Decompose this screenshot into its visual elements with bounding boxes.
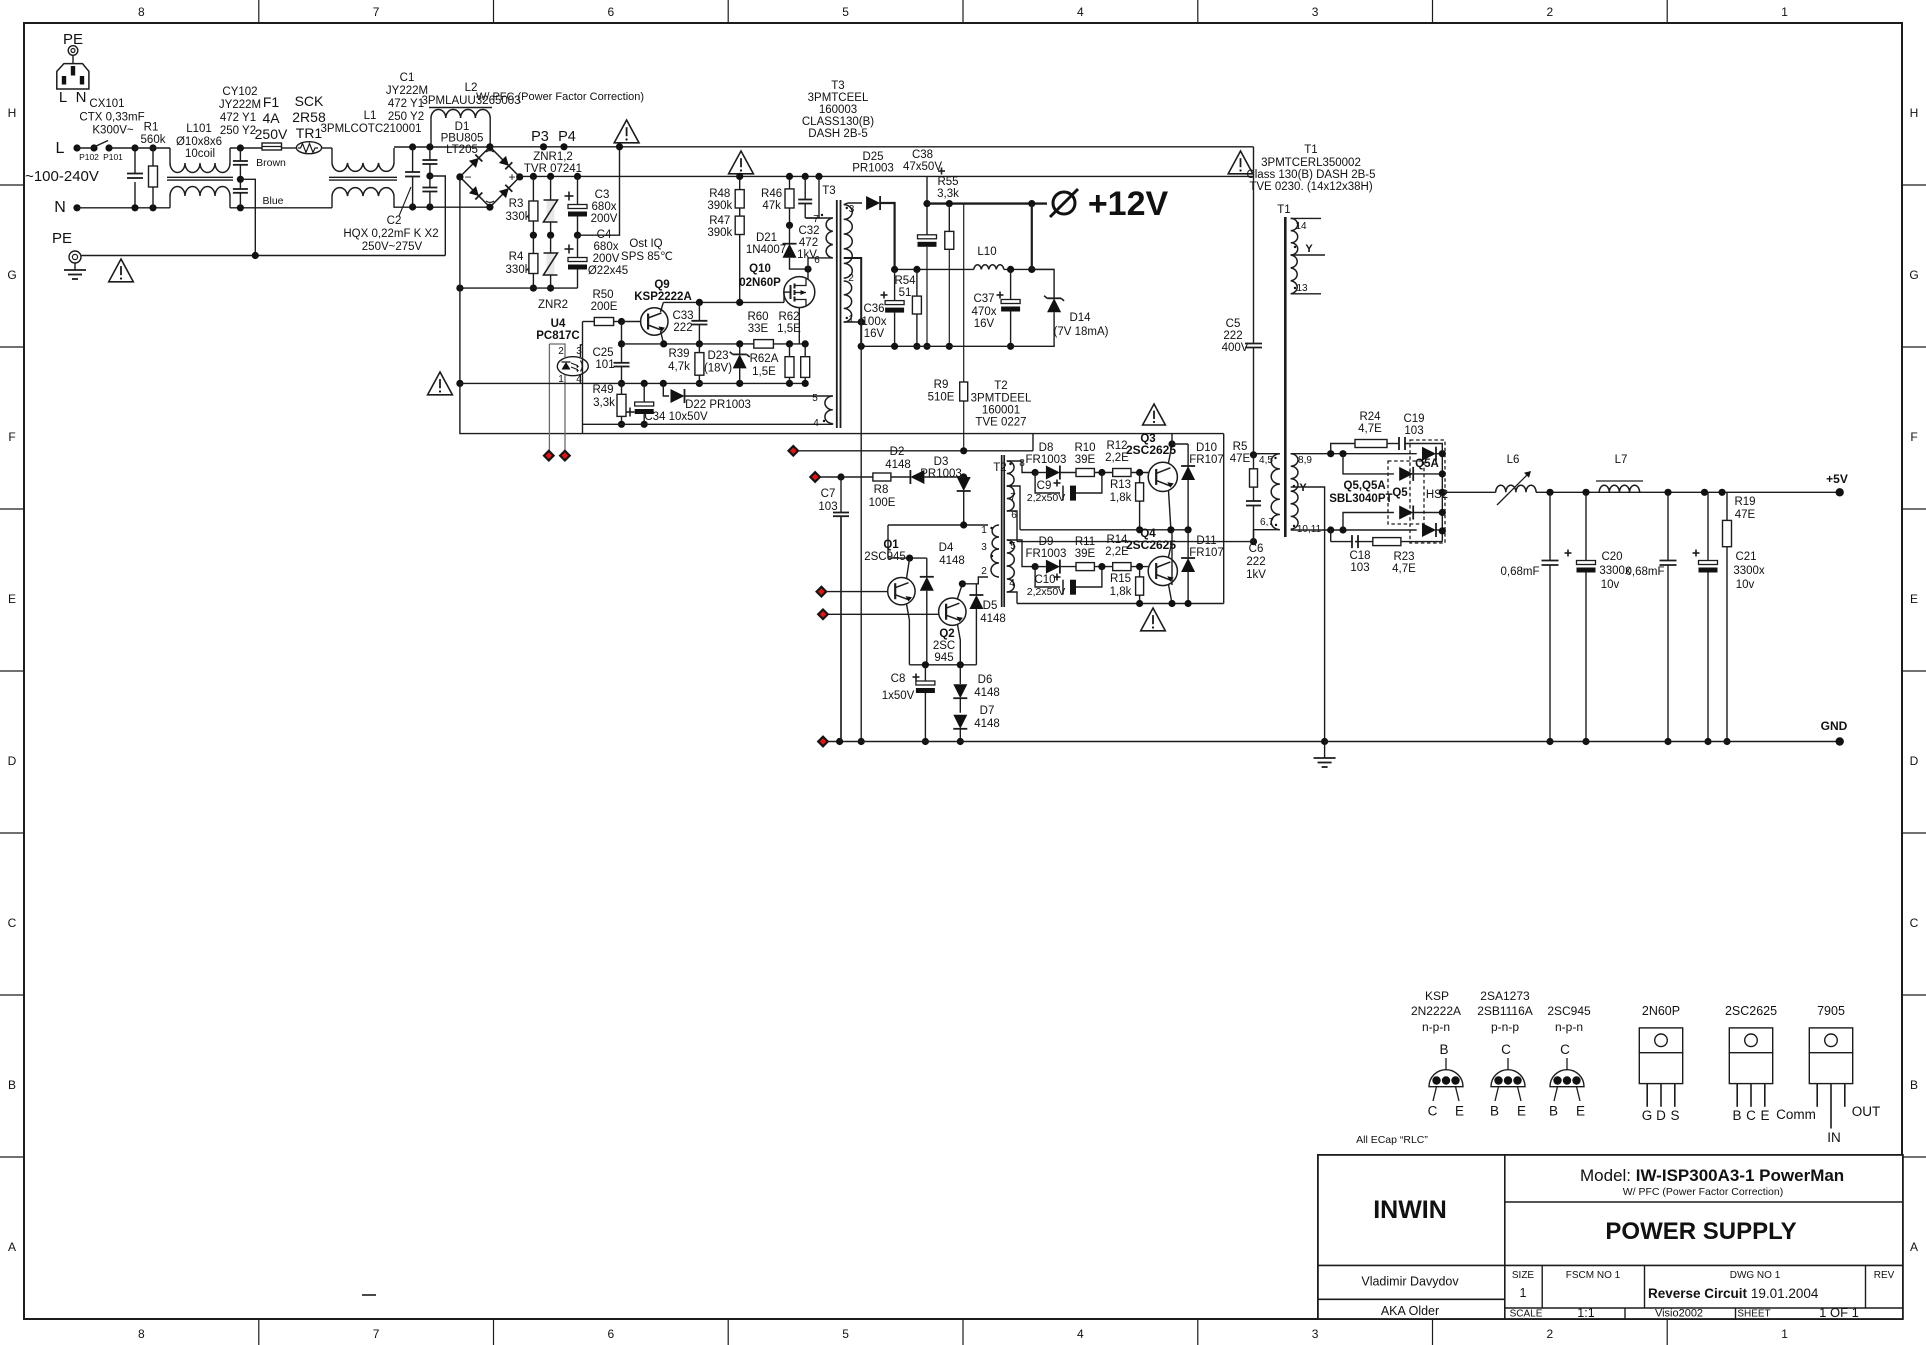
wire T3 pin2 stub xyxy=(844,258,862,346)
svg-text:R3: R3 xyxy=(509,198,524,210)
resistor R60 xyxy=(754,340,774,349)
transistor Q2 xyxy=(939,598,966,625)
svg-text:P3: P3 xyxy=(531,129,549,145)
svg-text:Q10: Q10 xyxy=(749,263,771,275)
T2 pin8 stub xyxy=(1007,461,1035,473)
svg-text:D3: D3 xyxy=(934,456,949,468)
svg-text:L1: L1 xyxy=(364,110,377,122)
T1 secondary winding 8,9-Y-10,11 xyxy=(1291,454,1298,479)
svg-text:8: 8 xyxy=(138,1327,145,1341)
diode D8 xyxy=(1032,469,1039,476)
svg-text:7: 7 xyxy=(373,1327,380,1341)
snubber C18 R23 branch xyxy=(1330,530,1332,542)
svg-text:D25: D25 xyxy=(862,151,883,163)
capacitor C1 Y-pair xyxy=(429,147,431,160)
wire bridge minus down xyxy=(459,177,461,288)
wire rail to plus12 node xyxy=(926,176,928,234)
svg-text:R50: R50 xyxy=(592,289,613,301)
svg-text:E: E xyxy=(1910,592,1918,606)
svg-text:R4: R4 xyxy=(509,251,524,263)
svg-text:C2: C2 xyxy=(387,215,402,227)
diode D4 xyxy=(926,558,928,577)
label +12V with no-connect symbol xyxy=(1053,192,1075,214)
svg-text:SPS 85℃: SPS 85℃ xyxy=(621,251,673,263)
package TO-92 B-C-E xyxy=(1429,1070,1463,1087)
svg-text:DWG NO 1: DWG NO 1 xyxy=(1730,1270,1781,1281)
svg-text:OUT: OUT xyxy=(1852,1104,1881,1119)
svg-text:R10: R10 xyxy=(1074,442,1095,454)
svg-text:B: B xyxy=(8,1078,16,1092)
wire N row 230-330 xyxy=(230,207,332,209)
diode D9 xyxy=(1032,563,1039,570)
capacitor C37 xyxy=(1010,269,1012,299)
svg-text:C: C xyxy=(1560,1042,1570,1057)
svg-text:R8: R8 xyxy=(874,484,889,496)
wire D7 to gnd bus xyxy=(959,729,961,742)
svg-text:680x: 680x xyxy=(594,241,619,253)
schottky diode d2 xyxy=(1399,467,1413,481)
svg-text:1,5E: 1,5E xyxy=(777,323,801,335)
U4 pin2 wire down to red dot xyxy=(548,344,550,451)
zone column ticks xyxy=(258,0,260,23)
package TO-92 C-B-E xyxy=(1550,1070,1584,1087)
svg-text:Y: Y xyxy=(1299,482,1307,494)
svg-text:p-n-p: p-n-p xyxy=(1491,1020,1519,1034)
wire red line to cell xyxy=(798,450,1033,452)
connector red dot P6 xyxy=(810,472,820,482)
svg-text:3PMTDEEL: 3PMTDEEL xyxy=(971,393,1032,405)
svg-text:250V~275V: 250V~275V xyxy=(362,241,423,253)
svg-text:51: 51 xyxy=(899,287,912,299)
svg-text:16V: 16V xyxy=(864,328,885,340)
svg-text:CX101: CX101 xyxy=(89,98,124,110)
svg-text:4148: 4148 xyxy=(974,718,1000,730)
svg-text:C25: C25 xyxy=(592,347,613,359)
resistor R62 xyxy=(789,344,791,357)
row Q3 bottom xyxy=(1020,529,1188,531)
svg-text:C32: C32 xyxy=(798,225,819,237)
svg-text:HQX 0,22mF K X2: HQX 0,22mF K X2 xyxy=(343,228,438,240)
svg-text:INWIN: INWIN xyxy=(1373,1196,1447,1224)
wire mid vertical xyxy=(1171,530,1173,542)
svg-text:T3: T3 xyxy=(822,185,835,197)
plus12 line xyxy=(927,202,1047,204)
T3 left winding pins 7-6 xyxy=(806,217,833,219)
wire T3 pin3 to D25 xyxy=(844,203,862,205)
svg-text:10coil: 10coil xyxy=(185,148,215,160)
warning triangle near T1 xyxy=(1228,151,1253,174)
svg-text:472 Y1: 472 Y1 xyxy=(220,112,256,124)
svg-text:Comm: Comm xyxy=(1776,1107,1816,1122)
zener D14 xyxy=(1032,269,1054,298)
svg-text:CLASS130(B): CLASS130(B) xyxy=(802,116,874,128)
T2 pin5 stub xyxy=(1007,540,1035,567)
resistor R4 xyxy=(532,235,534,253)
Q10 gate wire xyxy=(784,291,791,293)
svg-text:4: 4 xyxy=(813,418,819,429)
svg-text:1: 1 xyxy=(1781,1327,1788,1341)
leader line C2 xyxy=(399,187,411,216)
capacitor C38 electrolytic xyxy=(918,235,937,239)
svg-text:100x: 100x xyxy=(862,316,887,328)
resistor R62A xyxy=(804,344,806,357)
svg-text:1: 1 xyxy=(1520,1286,1527,1300)
capacitor C36 xyxy=(894,269,896,300)
svg-text:IN: IN xyxy=(1827,1130,1841,1145)
svg-text:SCK: SCK xyxy=(295,93,324,109)
svg-text:n-p-n: n-p-n xyxy=(1555,1020,1583,1034)
svg-text:A: A xyxy=(8,1240,16,1254)
svg-text:(7V 18mA): (7V 18mA) xyxy=(1054,326,1109,338)
warning triangle near PE xyxy=(109,259,134,282)
svg-text:PBU805: PBU805 xyxy=(441,133,484,145)
svg-text:200V: 200V xyxy=(593,253,620,265)
svg-text:Blue: Blue xyxy=(262,195,283,207)
svg-text:10v: 10v xyxy=(1601,579,1620,591)
gnd rail right portion xyxy=(1325,741,1840,743)
PE terminal symbol xyxy=(68,46,78,56)
capacitor C20 xyxy=(1565,552,1572,554)
row B 12V return xyxy=(861,345,1010,347)
svg-text:P4: P4 xyxy=(558,129,576,145)
svg-text:REV: REV xyxy=(1874,1270,1895,1281)
svg-text:D2: D2 xyxy=(890,446,905,458)
svg-text:39E: 39E xyxy=(1075,548,1096,560)
Q10 drain wire xyxy=(807,269,809,279)
wire T2 pin2 link xyxy=(962,577,988,584)
svg-text:0,68mF: 0,68mF xyxy=(1501,566,1540,578)
diode D5 xyxy=(975,584,977,595)
inductor L7 xyxy=(1599,485,1639,492)
wire vertical x861 xyxy=(860,346,862,741)
svg-text:103: 103 xyxy=(1350,562,1369,574)
transformer T1 core xyxy=(1284,217,1287,537)
feed to diode d2 xyxy=(1343,454,1394,474)
svg-text:2SC2625: 2SC2625 xyxy=(1725,1004,1777,1018)
svg-text:R19: R19 xyxy=(1734,496,1755,508)
svg-text:FR1003: FR1003 xyxy=(1026,548,1067,560)
Q10 source wire xyxy=(798,308,800,344)
+5V terminal xyxy=(1836,488,1844,496)
T1 winding 14-Y-13 xyxy=(1291,218,1298,255)
svg-text:D: D xyxy=(1910,754,1919,768)
resistor R15 xyxy=(1139,567,1141,577)
T3 right winding pin2-1 xyxy=(844,281,852,322)
svg-text:2,2x50V: 2,2x50V xyxy=(1027,492,1066,504)
capacitor CY102 pair xyxy=(239,148,241,161)
svg-text:14: 14 xyxy=(1295,221,1307,232)
Q2 collector wire xyxy=(958,584,963,599)
svg-text:W/ PFC (Power Factor Correctio: W/ PFC (Power Factor Correction) xyxy=(476,91,644,103)
svg-text:LT205: LT205 xyxy=(446,144,478,156)
svg-text:E: E xyxy=(1517,1104,1526,1119)
svg-text:ZNR2: ZNR2 xyxy=(538,299,568,311)
wire rail to T3 pin7 branch xyxy=(818,176,820,218)
svg-text:47k: 47k xyxy=(762,200,781,212)
svg-text:4148: 4148 xyxy=(980,613,1006,625)
transistor Q9 xyxy=(622,321,649,323)
svg-text:R24: R24 xyxy=(1359,411,1381,423)
scale row line xyxy=(1505,1307,1903,1309)
wire Q4 collector vertical xyxy=(1171,556,1173,585)
dashed box Q5A xyxy=(1410,440,1445,543)
svg-text:L: L xyxy=(56,140,65,157)
svg-text:4,5: 4,5 xyxy=(1259,455,1273,466)
svg-text:1x50V: 1x50V xyxy=(882,690,915,702)
svg-text:5: 5 xyxy=(842,5,849,19)
mosfet Q10 xyxy=(784,277,815,308)
svg-text:4148: 4148 xyxy=(974,687,1000,699)
svg-text:R55: R55 xyxy=(937,176,958,188)
svg-text:Q2: Q2 xyxy=(939,628,954,640)
connector red dot P2 xyxy=(560,451,570,461)
zener D23 xyxy=(739,344,741,355)
svg-text:4148: 4148 xyxy=(885,459,911,471)
svg-text:4: 4 xyxy=(1009,578,1015,589)
svg-text:KSP: KSP xyxy=(1425,989,1449,1003)
AC plug connector xyxy=(57,64,89,89)
choke L101 core xyxy=(167,176,233,178)
svg-text:3300x: 3300x xyxy=(1733,565,1765,577)
capacitor C34 xyxy=(626,411,635,413)
svg-text:R23: R23 xyxy=(1393,551,1414,563)
svg-text:Ø22x45: Ø22x45 xyxy=(588,265,628,277)
svg-text:1: 1 xyxy=(848,314,854,325)
+5V rail xyxy=(1536,491,1840,493)
svg-text:PR1003: PR1003 xyxy=(920,468,962,480)
resistor R55 xyxy=(948,204,950,232)
capacitor C10 xyxy=(1035,567,1060,587)
svg-text:C: C xyxy=(1428,1104,1438,1119)
svg-text:C33: C33 xyxy=(672,310,693,322)
bottom row Q1 Q2 xyxy=(909,664,976,666)
svg-text:C19: C19 xyxy=(1403,413,1424,425)
svg-text:2: 2 xyxy=(981,566,987,577)
svg-text:D: D xyxy=(1656,1108,1666,1123)
resistor R54 xyxy=(916,269,918,296)
svg-text:2SC2625: 2SC2625 xyxy=(1126,538,1176,552)
svg-text:510E: 510E xyxy=(928,392,955,404)
svg-text:C: C xyxy=(1501,1042,1511,1057)
rail Q9 collector xyxy=(663,301,784,303)
svg-text:2N2222A: 2N2222A xyxy=(1411,1004,1461,1018)
svg-text:Ø10x8x6: Ø10x8x6 xyxy=(176,136,222,148)
wire Q3 collector to rail xyxy=(1171,434,1173,444)
svg-text:K300V~: K300V~ xyxy=(92,125,134,137)
svg-text:D10: D10 xyxy=(1196,442,1217,454)
svg-text:C6: C6 xyxy=(1249,543,1264,555)
scale dividers xyxy=(1624,1308,1626,1319)
title block model row line xyxy=(1505,1201,1903,1203)
svg-text:250V: 250V xyxy=(255,126,288,142)
svg-text:A: A xyxy=(1910,1240,1918,1254)
svg-text:C3: C3 xyxy=(595,189,610,201)
stray dash bottom left xyxy=(362,1294,376,1296)
wire output to L6 xyxy=(1442,491,1495,493)
svg-text:103: 103 xyxy=(1404,425,1423,437)
choke L1 windings xyxy=(331,148,333,163)
dashed box Q5 xyxy=(1388,461,1424,524)
svg-text:4: 4 xyxy=(1077,5,1084,19)
resistor R13 xyxy=(1139,473,1141,483)
resistor R19 xyxy=(1726,492,1728,520)
svg-text:0,68mF: 0,68mF xyxy=(1626,566,1665,578)
row A 12V rect node xyxy=(895,268,974,270)
wire C32 to T3 pin7 xyxy=(805,217,820,219)
transistor Q1 xyxy=(888,578,915,605)
rectifier output column xyxy=(1441,454,1443,542)
svg-text:C9: C9 xyxy=(1037,480,1052,492)
svg-text:R48: R48 xyxy=(709,188,730,200)
svg-text:16V: 16V xyxy=(974,318,995,330)
svg-text:Q5,Q5A: Q5,Q5A xyxy=(1344,480,1386,492)
svg-text:N: N xyxy=(54,199,66,216)
svg-text:390k: 390k xyxy=(707,200,732,212)
svg-text:R60: R60 xyxy=(747,311,768,323)
capacitor C7 xyxy=(840,477,842,513)
svg-text:E: E xyxy=(1576,1104,1585,1119)
transformer T2 core xyxy=(1001,455,1003,607)
svg-text:−: − xyxy=(464,170,471,184)
svg-text:101: 101 xyxy=(595,359,614,371)
capacitor C4 xyxy=(565,248,574,250)
svg-text:2SB1116A: 2SB1116A xyxy=(1477,1004,1533,1018)
rail plus from bridge right xyxy=(520,175,1254,177)
svg-text:D9: D9 xyxy=(1039,536,1054,548)
varistor ZNR1 xyxy=(550,176,552,200)
svg-text:5: 5 xyxy=(812,393,818,404)
resistor R48 xyxy=(739,176,741,189)
wire bus down corner to bottom rail xyxy=(460,383,583,433)
svg-text:7: 7 xyxy=(1010,492,1016,503)
title block outline xyxy=(1318,1155,1903,1319)
svg-text:(18V): (18V) xyxy=(704,363,732,375)
wire C1 midpoint to PE line xyxy=(430,176,445,256)
svg-text:10v: 10v xyxy=(1736,579,1755,591)
ground symbol secondary xyxy=(1324,742,1326,759)
wire CY102 midpoint to PE xyxy=(240,179,255,255)
warning triangle below cell xyxy=(1141,608,1166,631)
long rail primary top xyxy=(583,433,1224,435)
svg-text:C: C xyxy=(1746,1108,1756,1123)
wire bus down to U4 area xyxy=(459,288,461,383)
warning triangle above R48 xyxy=(729,151,754,174)
svg-text:1kV: 1kV xyxy=(1246,569,1266,581)
row 8,9 to rectifier xyxy=(1291,453,1417,455)
svg-text:R47: R47 xyxy=(709,215,730,227)
T2 pin7 stub xyxy=(1007,486,1020,530)
svg-text:1: 1 xyxy=(1781,5,1788,19)
svg-text:ZNR1,2: ZNR1,2 xyxy=(533,151,573,163)
svg-text:B: B xyxy=(1549,1104,1558,1119)
svg-text:D8: D8 xyxy=(1039,442,1054,454)
ground symbol PE xyxy=(74,263,76,270)
schottky diode d1 xyxy=(1422,447,1436,461)
cell box right edge xyxy=(1223,434,1225,604)
arrow from PE to plug xyxy=(72,56,74,69)
switch P102 P101 xyxy=(73,144,80,151)
wire N row L1 to bridge xyxy=(394,206,490,208)
title row line2 xyxy=(1318,1264,1903,1266)
wire pin3 vertical net xyxy=(582,322,584,434)
svg-text:B: B xyxy=(1439,1042,1448,1057)
svg-text:472 Y1: 472 Y1 xyxy=(388,98,424,110)
resistor R12 xyxy=(1113,469,1131,477)
wire bottom bus ZNR xyxy=(460,287,578,289)
svg-text:SIZE: SIZE xyxy=(1512,1270,1535,1281)
svg-text:Q5: Q5 xyxy=(1392,487,1408,499)
svg-text:S: S xyxy=(1670,1108,1679,1123)
svg-text:FR1003: FR1003 xyxy=(1026,454,1067,466)
svg-text:D22 PR1003: D22 PR1003 xyxy=(685,399,751,411)
U4 pin2 bracket wire xyxy=(549,344,565,357)
svg-text:~100-240V: ~100-240V xyxy=(25,168,99,185)
svg-text:C21: C21 xyxy=(1735,551,1756,563)
svg-text:CY102: CY102 xyxy=(222,86,257,98)
wire L row to choke xyxy=(135,147,170,149)
svg-text:1,5E: 1,5E xyxy=(752,366,776,378)
svg-text:P102: P102 xyxy=(79,152,99,162)
capacitor 0,68mF second xyxy=(1667,492,1669,560)
bottom row U4 cell xyxy=(583,423,833,425)
resistor R50 xyxy=(583,321,595,323)
svg-text:2SC: 2SC xyxy=(933,640,955,652)
svg-text:3: 3 xyxy=(1312,5,1319,19)
Q1 emitter wire xyxy=(907,604,910,665)
svg-text:FR107: FR107 xyxy=(1189,454,1224,466)
svg-text:R15: R15 xyxy=(1110,573,1131,585)
svg-text:470x: 470x xyxy=(972,306,997,318)
svg-text:T2: T2 xyxy=(993,462,1006,474)
title block vertical divider xyxy=(1504,1155,1506,1319)
svg-text:1,8k: 1,8k xyxy=(1110,492,1132,504)
svg-text:R39: R39 xyxy=(668,348,689,360)
zone row ticks xyxy=(0,184,24,186)
wire rail302 to Q10 gate xyxy=(783,292,785,302)
svg-text:1:1: 1:1 xyxy=(1577,1306,1594,1320)
connector red dot P5 xyxy=(789,446,799,456)
svg-text:C8: C8 xyxy=(891,673,906,685)
Q4 emitter wire xyxy=(1169,585,1173,604)
svg-text:2,2x50V: 2,2x50V xyxy=(1027,586,1066,598)
diode D2 xyxy=(891,476,911,478)
T2 right winding 8-7-6 xyxy=(1007,461,1014,486)
svg-text:2SC945: 2SC945 xyxy=(864,551,906,563)
svg-text:200E: 200E xyxy=(591,301,618,313)
svg-text:Vladimir Davydov: Vladimir Davydov xyxy=(1361,1275,1459,1289)
svg-text:250 Y2: 250 Y2 xyxy=(388,111,424,123)
resistor R14 xyxy=(1113,563,1131,571)
svg-text:D21: D21 xyxy=(756,232,777,244)
svg-text:D1: D1 xyxy=(455,121,470,133)
svg-text:330k: 330k xyxy=(506,264,531,276)
svg-text:4: 4 xyxy=(1077,1327,1084,1341)
svg-text:PE: PE xyxy=(52,230,72,247)
T3 pin6 stub link xyxy=(808,258,833,269)
diode D10 xyxy=(1187,444,1189,466)
svg-text:TVR 07241: TVR 07241 xyxy=(524,163,582,175)
Q2 base row xyxy=(818,610,828,620)
U4 pin3 wire xyxy=(580,345,582,357)
svg-text:7: 7 xyxy=(373,5,380,19)
wire L row 230-330 xyxy=(230,147,262,149)
svg-text:3: 3 xyxy=(981,542,987,553)
warning triangle near U4 xyxy=(428,372,453,395)
svg-text:47E: 47E xyxy=(1230,453,1251,465)
svg-text:103: 103 xyxy=(818,501,837,513)
svg-text:02N60P: 02N60P xyxy=(739,277,781,289)
svg-text:POWER SUPPLY: POWER SUPPLY xyxy=(1605,1218,1796,1245)
